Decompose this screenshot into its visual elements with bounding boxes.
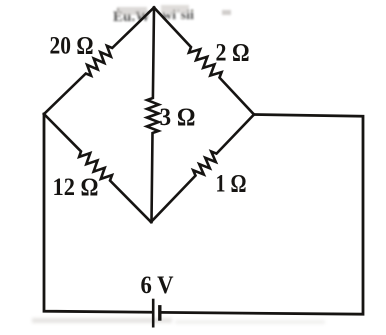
svg-text:3 Ω: 3 Ω <box>160 104 196 131</box>
svg-text:12 Ω: 12 Ω <box>53 174 99 201</box>
svg-text:20 Ω: 20 Ω <box>50 33 94 60</box>
svg-text:1 Ω: 1 Ω <box>216 171 247 198</box>
svg-text:6 V: 6 V <box>141 272 174 299</box>
svg-text:2 Ω: 2 Ω <box>216 40 250 67</box>
